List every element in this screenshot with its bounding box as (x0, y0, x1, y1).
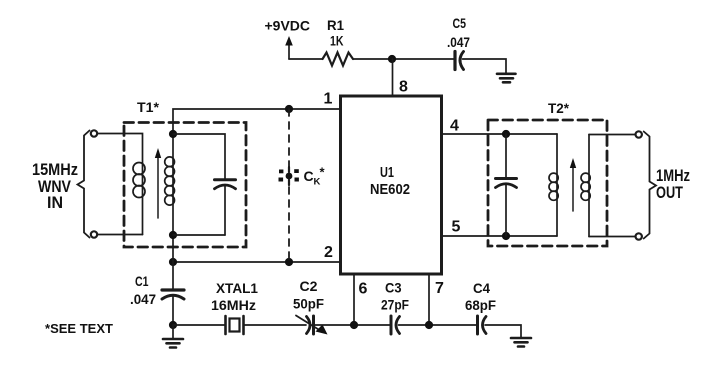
wire C2 to C3 (315, 324, 390, 326)
wire R1 to C5 (353, 58, 455, 60)
transformer T2 dashed outline (488, 120, 607, 246)
svg-text:+9VDC: +9VDC (265, 18, 311, 34)
svg-text:T2*: T2* (548, 101, 570, 116)
wire pin 4 to T2 (442, 133, 557, 135)
capacitor T2 tank (505, 134, 507, 178)
ground (right of C5) (497, 74, 516, 83)
wire T1 bottom to pin 2 (173, 261, 340, 263)
crystal XTAL1 (224, 316, 227, 334)
svg-text:IN: IN (47, 194, 63, 212)
svg-text:2: 2 (324, 244, 333, 261)
resistor R1 (323, 53, 354, 66)
svg-text:*: * (320, 165, 326, 180)
T1 primary winding (133, 163, 145, 175)
IC U1 NE602 body (341, 96, 442, 274)
input terminal top (91, 130, 97, 136)
wire input top to T1 primary (98, 134, 142, 235)
capacitor T1 tank (215, 178, 236, 181)
wire pin 8 (392, 59, 394, 96)
svg-text:OUT: OUT (656, 184, 683, 202)
junction node T2 cap bottom (502, 232, 510, 240)
wire bottom rail C1 to XTAL1 (173, 324, 225, 326)
svg-text:8: 8 (399, 79, 408, 96)
svg-text:C1: C1 (135, 273, 149, 289)
output terminal bottom (636, 233, 642, 239)
wire supply to R1 (289, 58, 323, 60)
junction node pin 7 / rail (425, 321, 433, 329)
T1 coupling arrow (157, 156, 159, 218)
capacitor C1 (172, 262, 174, 290)
wire pin 7 (428, 274, 430, 325)
junction node supply/pin 8 (388, 55, 396, 63)
input brace (78, 131, 90, 238)
transformer T1 dashed outline (124, 123, 246, 248)
svg-text:U1: U1 (380, 164, 394, 181)
ground (under C1) (172, 325, 174, 338)
input terminal bottom (91, 231, 97, 237)
wire T1 primary to input bottom (98, 234, 142, 236)
svg-text:XTAL1: XTAL1 (216, 280, 258, 296)
wire C4 to ground (485, 325, 521, 337)
junction node pin 2 / T1 / C1 (169, 258, 177, 266)
junction node C1 / bottom rail (169, 321, 177, 329)
svg-text:27pF: 27pF (381, 297, 409, 313)
wire dashed Cx branch (288, 109, 290, 262)
svg-text:6: 6 (359, 281, 368, 298)
supply arrow +9VDC (288, 42, 290, 59)
svg-text:1MHz: 1MHz (656, 167, 690, 185)
wire T1 tank cap bottom (173, 234, 225, 236)
svg-text:C5: C5 (453, 15, 467, 31)
wire C5 to ground (463, 59, 507, 73)
wire T2 secondary to output bottom (589, 236, 634, 238)
wire T2 secondary to output top (589, 134, 634, 136)
svg-text:1K: 1K (330, 33, 344, 49)
output brace (644, 132, 656, 239)
svg-text:C2: C2 (300, 278, 318, 294)
svg-text:7: 7 (435, 280, 444, 297)
wire C3 to C4 (399, 324, 478, 326)
svg-text:68pF: 68pF (465, 297, 496, 313)
svg-text:1: 1 (324, 91, 333, 108)
svg-text:4: 4 (450, 118, 459, 135)
svg-text:NE602: NE602 (370, 181, 410, 198)
T2 primary winding (556, 134, 558, 236)
svg-text:.047: .047 (130, 291, 156, 307)
wire T1 secondary to pin 1 (173, 109, 340, 134)
T2 secondary winding (588, 135, 590, 237)
ground (right of C4) (511, 338, 531, 347)
junction node T1 secondary bottom (169, 231, 177, 239)
svg-text:5: 5 (452, 219, 461, 236)
output terminal top (636, 131, 642, 137)
svg-text:*SEE TEXT: *SEE TEXT (45, 321, 113, 336)
wire pin 6 (353, 274, 355, 325)
svg-text:R1: R1 (327, 17, 344, 33)
junction node pin 6 / rail (350, 321, 358, 329)
svg-text:T1*: T1* (137, 100, 160, 115)
svg-text:C3: C3 (385, 280, 402, 296)
svg-text:.047: .047 (447, 34, 470, 50)
T2 coupling arrow (572, 166, 574, 211)
junction node pin 1 / Cx (285, 105, 293, 113)
svg-text:15MHz: 15MHz (32, 161, 78, 179)
junction node pin 2 / Cx (285, 258, 293, 266)
wire T1 tank cap top (173, 134, 225, 179)
svg-text:C4: C4 (473, 280, 490, 296)
capacitor C4 (476, 316, 479, 334)
wire pin 5 to T2 (442, 235, 557, 237)
T1 secondary winding (172, 134, 174, 262)
wire XTAL1 to C2 (244, 324, 307, 326)
capacitor C2 variable (307, 317, 311, 334)
junction node T1 secondary top (169, 130, 177, 138)
svg-text:50pF: 50pF (293, 296, 324, 312)
junction node T2 cap top (502, 130, 510, 138)
capacitor Cx (dotted symbol) (279, 169, 299, 181)
capacitor C3 (390, 316, 393, 334)
svg-text:C: C (304, 168, 314, 184)
capacitor C5 (453, 52, 456, 70)
svg-text:16MHz: 16MHz (211, 297, 256, 313)
